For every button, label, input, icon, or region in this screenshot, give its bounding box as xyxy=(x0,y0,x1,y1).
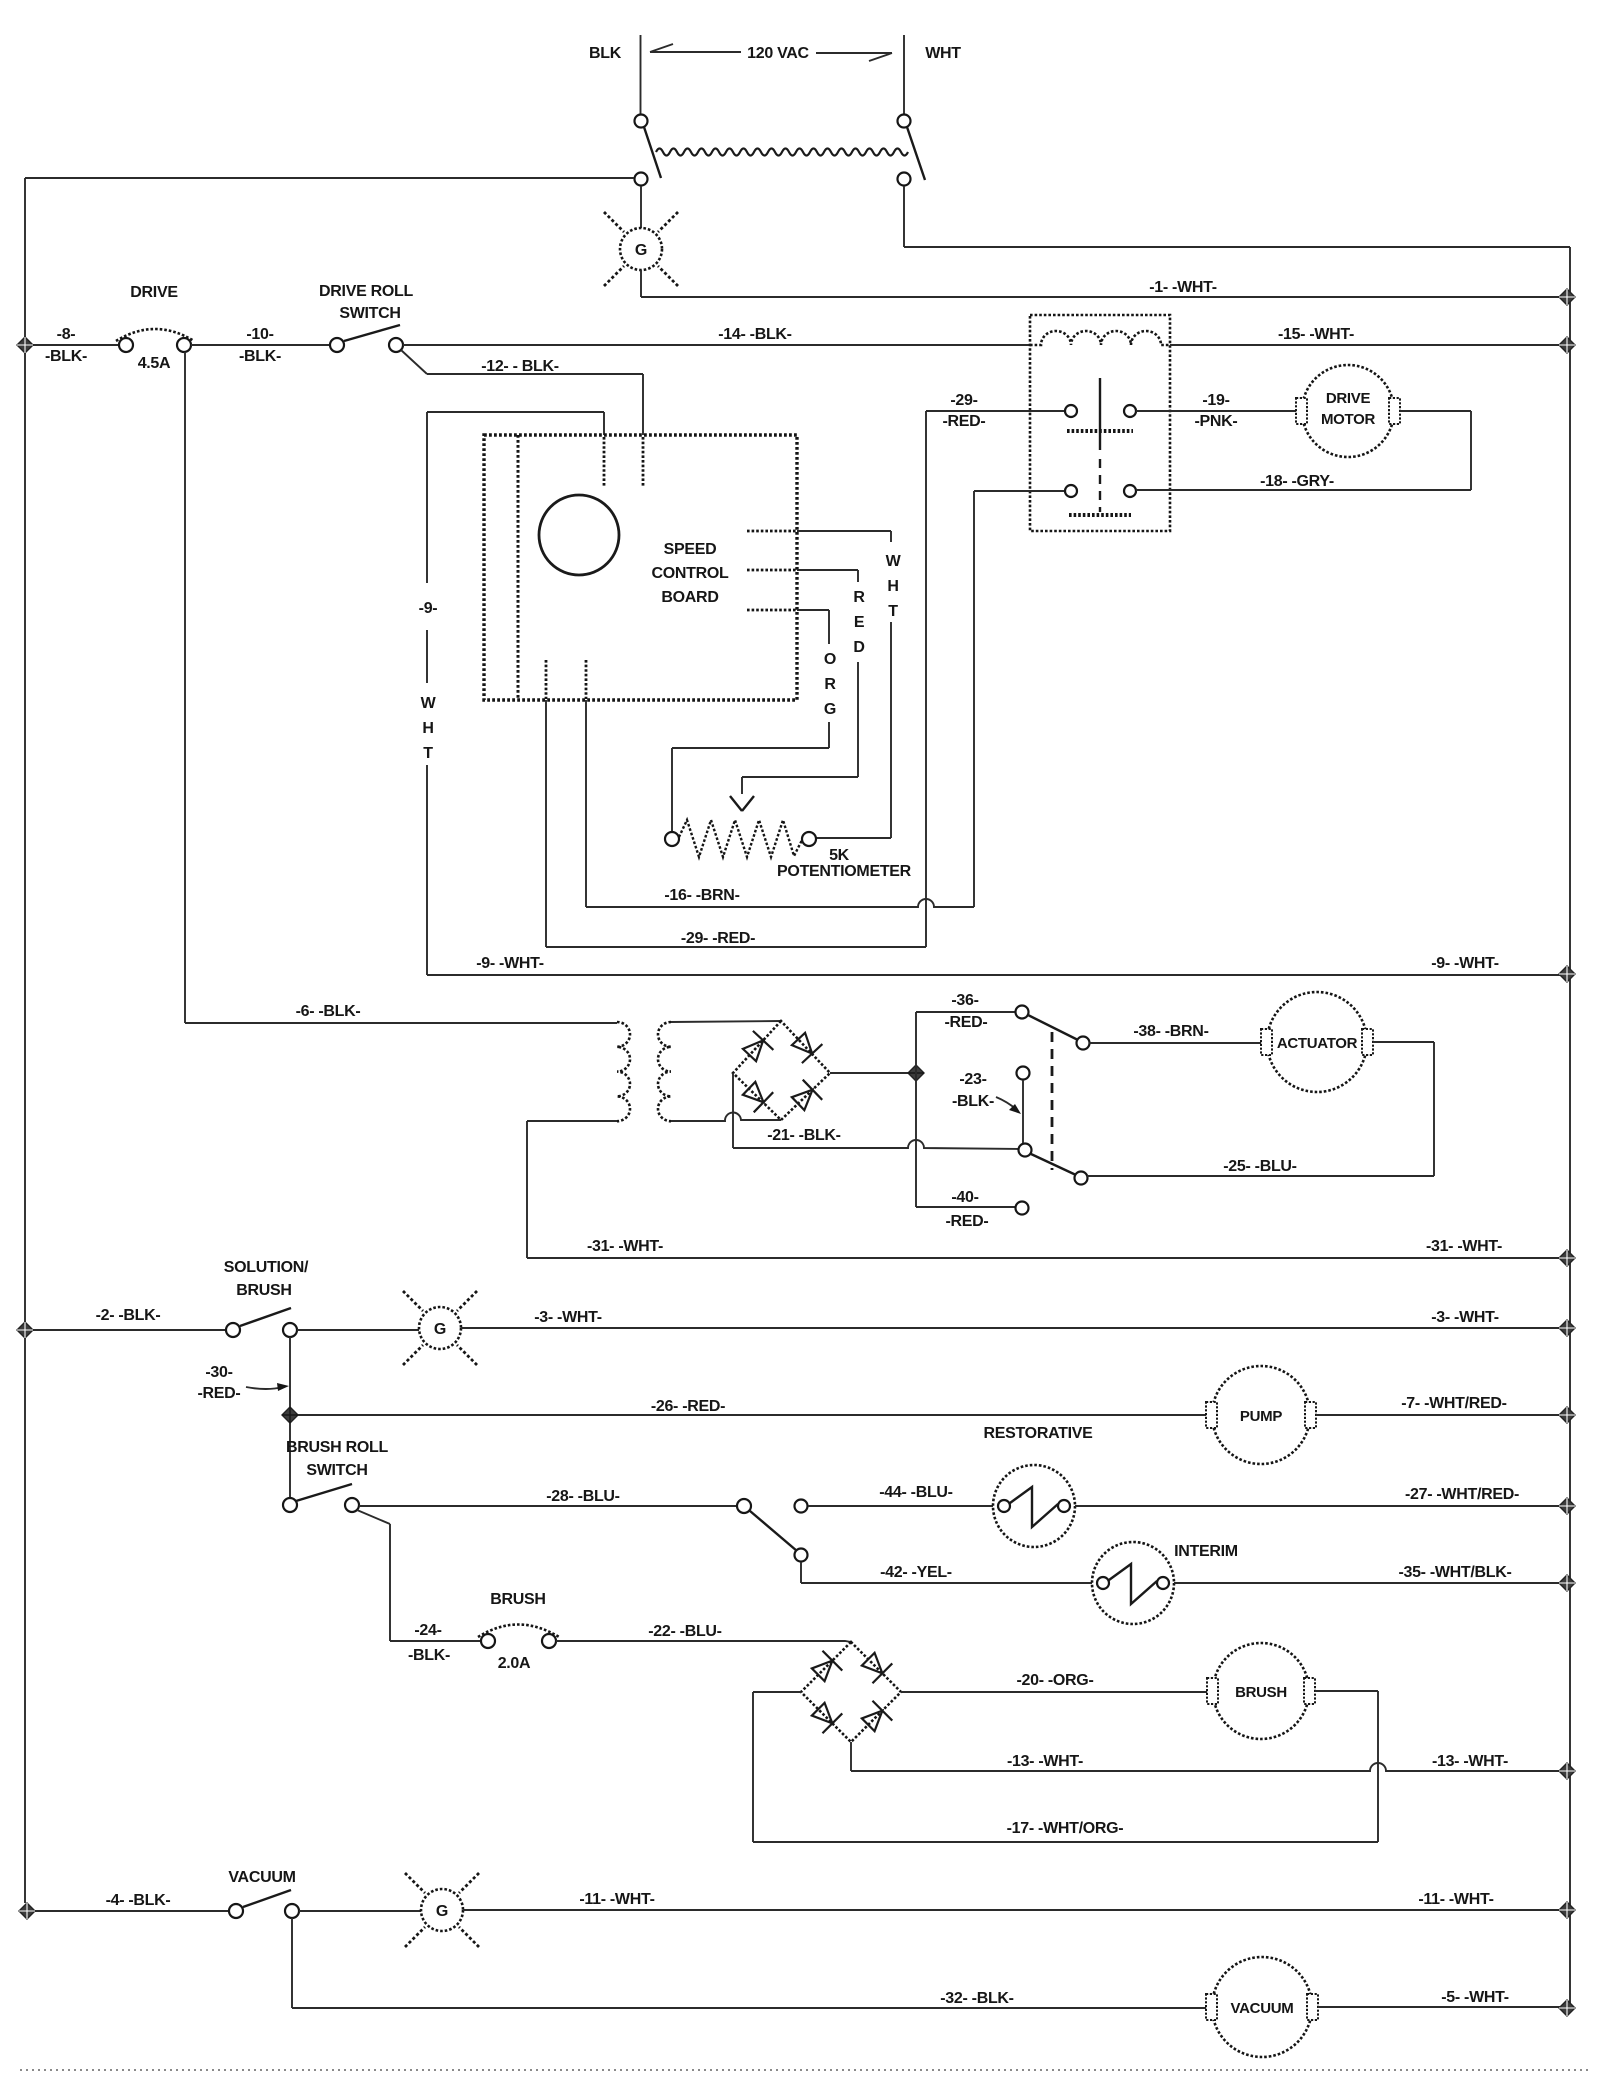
label 2.0A xyxy=(498,1655,531,1672)
wire primary bottom to -31- xyxy=(527,1121,617,1258)
svg-text:-3- -WHT-: -3- -WHT- xyxy=(534,1309,602,1326)
svg-text:DRIVE: DRIVE xyxy=(1326,390,1371,407)
svg-text:W: W xyxy=(421,695,437,712)
junction node -26- xyxy=(282,1407,298,1423)
wire bridge bottom to -13- xyxy=(850,1742,852,1771)
label -29- -RED- (relay) xyxy=(943,392,986,430)
wire -17- -WHT/ORG- xyxy=(753,1841,1378,1843)
svg-text:-BLK-: -BLK- xyxy=(952,1093,994,1110)
wire -1- -WHT- xyxy=(641,270,1561,297)
svg-text:T: T xyxy=(888,603,898,620)
wire -31- -WHT- xyxy=(527,1257,1561,1259)
svg-text:PUMP: PUMP xyxy=(1240,1408,1282,1425)
svg-text:-20- -ORG-: -20- -ORG- xyxy=(1016,1672,1093,1689)
label -28- -BLU- xyxy=(546,1488,619,1505)
svg-text:-31- -WHT-: -31- -WHT- xyxy=(587,1238,663,1255)
svg-text:BRUSH: BRUSH xyxy=(1235,1684,1287,1701)
svg-text:E: E xyxy=(854,614,865,631)
label -4- -BLK- xyxy=(106,1892,171,1909)
svg-text:-RED-: -RED- xyxy=(198,1385,241,1402)
svg-text:-13- -WHT-: -13- -WHT- xyxy=(1432,1753,1508,1770)
label -31- -WHT- left xyxy=(587,1238,663,1255)
connector diamond -8- left xyxy=(17,337,33,353)
svg-text:-25- -BLU-: -25- -BLU- xyxy=(1223,1158,1296,1175)
label -23- -BLK- with leader xyxy=(952,1071,1021,1114)
label SPEED CONTROL BOARD xyxy=(651,541,729,606)
svg-text:D: D xyxy=(853,639,864,656)
svg-text:WHT: WHT xyxy=(925,45,961,62)
drive motor M1 xyxy=(1296,365,1400,457)
wire -5- -WHT- xyxy=(1318,2006,1561,2008)
label -2- -BLK- xyxy=(96,1307,161,1324)
label -11- -WHT- right xyxy=(1418,1891,1493,1908)
svg-text:BLK: BLK xyxy=(589,45,622,62)
svg-text:RESTORATIVE: RESTORATIVE xyxy=(983,1425,1093,1442)
svg-text:-44- -BLU-: -44- -BLU- xyxy=(879,1484,952,1501)
svg-text:-BLK-: -BLK- xyxy=(408,1647,450,1664)
label -14- -BLK- xyxy=(718,326,791,343)
wire -7- -WHT/RED- xyxy=(1316,1414,1561,1416)
wire bridge right to junction xyxy=(830,1072,916,1074)
wire -19- -PNK- xyxy=(1136,410,1296,412)
label -25- -BLU- xyxy=(1223,1158,1296,1175)
label -19- -PNK- xyxy=(1195,392,1238,430)
svg-text:-RED-: -RED- xyxy=(946,1213,989,1230)
wire -35- -WHT/BLK- xyxy=(1174,1582,1561,1584)
connector diamond -4- left xyxy=(19,1903,35,1919)
connector diamond -5- right xyxy=(1559,2000,1575,2016)
dimension arrow left xyxy=(650,44,741,52)
connector diamond -35- right xyxy=(1559,1575,1575,1591)
wire brush motor to -17- riser xyxy=(1315,1691,1378,1842)
wire -16- relay to board with hop xyxy=(586,491,1064,907)
svg-text:O: O xyxy=(824,651,836,668)
restorative valve L1 xyxy=(993,1465,1075,1547)
circuit breaker CB1 4.5A xyxy=(116,329,194,352)
svg-text:VACUUM: VACUUM xyxy=(228,1869,295,1886)
connector diamond -2- left xyxy=(17,1322,33,1338)
svg-text:-12- - BLK-: -12- - BLK- xyxy=(481,358,559,375)
relay K1 coil xyxy=(1030,331,1170,345)
svg-text:-30-: -30- xyxy=(205,1364,232,1381)
wire -24- -BLK- xyxy=(390,1640,481,1642)
label WHT xyxy=(925,45,961,62)
relay K1 box xyxy=(1030,315,1170,531)
speed control board circle xyxy=(539,495,619,575)
svg-text:-8-: -8- xyxy=(57,326,76,343)
wire junction riser -36-/-40- xyxy=(916,1012,1015,1207)
lamp G2 spokes xyxy=(403,1291,477,1365)
svg-text:DRIVE ROLL: DRIVE ROLL xyxy=(319,283,413,300)
svg-text:INTERIM: INTERIM xyxy=(1174,1543,1238,1560)
svg-text:-16- -BRN-: -16- -BRN- xyxy=(664,887,739,904)
svg-text:SWITCH: SWITCH xyxy=(339,305,400,322)
svg-text:-2- -BLK-: -2- -BLK- xyxy=(96,1307,161,1324)
svg-text:-35- -WHT/BLK-: -35- -WHT/BLK- xyxy=(1398,1564,1511,1581)
wire SW7 to lamp G3 xyxy=(299,1910,421,1912)
label -6- -BLK- xyxy=(296,1003,361,1020)
wire -9- -WHT- horizontal xyxy=(427,974,1561,976)
junction node (bridge +) xyxy=(908,1065,924,1081)
wire -30- node drop xyxy=(289,1337,291,1498)
wire -23- jumper xyxy=(1022,1080,1024,1143)
wire WHT pole down to right frame xyxy=(904,186,1570,247)
label -30- -RED- with leader xyxy=(198,1364,289,1402)
lamp G1 spokes xyxy=(604,212,678,286)
svg-text:H: H xyxy=(422,720,433,737)
wire WHT line cord xyxy=(903,35,905,114)
svg-text:BRUSH: BRUSH xyxy=(490,1591,545,1608)
svg-text:-23-: -23- xyxy=(959,1071,986,1088)
label -42- -YEL- xyxy=(880,1564,952,1581)
label -15- -WHT- xyxy=(1278,326,1354,343)
wire -9- vertical xyxy=(426,412,428,975)
label WHT vertical xyxy=(886,553,902,620)
svg-text:G: G xyxy=(635,242,647,259)
lamp G3 spokes xyxy=(405,1873,479,1947)
svg-text:-BLK-: -BLK- xyxy=(239,348,281,365)
svg-text:-BLK-: -BLK- xyxy=(45,348,87,365)
vacuum switch SW7 xyxy=(229,1890,299,1918)
svg-text:2.0A: 2.0A xyxy=(498,1655,531,1672)
wire -29- relay to board xyxy=(546,411,1064,947)
svg-text:-28- -BLU-: -28- -BLU- xyxy=(546,1488,619,1505)
indicator lamp G1 xyxy=(620,228,662,270)
brush motor M4 xyxy=(1207,1643,1315,1739)
plug switch SW1 levers xyxy=(644,127,925,180)
svg-text:5K: 5K xyxy=(829,847,850,864)
wire secondary top to bridge xyxy=(671,1021,781,1022)
wire secondary bottom to bridge (hop) xyxy=(671,1112,781,1121)
wire -44- -BLU- xyxy=(808,1505,993,1507)
plug switch SW1 contacts xyxy=(635,115,911,186)
svg-text:-17- -WHT/ORG-: -17- -WHT/ORG- xyxy=(1007,1820,1124,1837)
wire -13- -WHT- with hop xyxy=(851,1763,1561,1771)
actuator switch SW5 contacts xyxy=(1016,1006,1090,1215)
label -3- -WHT- left xyxy=(534,1309,602,1326)
label -20- -ORG- xyxy=(1016,1672,1093,1689)
svg-text:-6- -BLK-: -6- -BLK- xyxy=(296,1003,361,1020)
wire board RED to pot wiper xyxy=(742,570,858,794)
connector diamond -1- right xyxy=(1559,289,1575,305)
wire BLK line cord xyxy=(640,35,642,114)
label -16- -BRN- xyxy=(664,887,739,904)
svg-text:BRUSH: BRUSH xyxy=(236,1282,291,1299)
pump motor M3 xyxy=(1206,1366,1316,1464)
svg-text:-PNK-: -PNK- xyxy=(1195,413,1238,430)
label -29- -RED- (lower) xyxy=(681,930,755,947)
wire left frame bus xyxy=(24,178,26,1903)
board pin stubs top xyxy=(604,437,643,487)
label -7- -WHT/RED- xyxy=(1401,1395,1506,1412)
bridge rectifier BR1 diamond xyxy=(733,1021,830,1120)
wire -12- - BLK- xyxy=(401,350,643,435)
label -40- -RED- xyxy=(946,1189,989,1230)
svg-text:-5- -WHT-: -5- -WHT- xyxy=(1441,1989,1509,2006)
transformer T1 secondary winding xyxy=(658,1022,671,1121)
dimension arrow right xyxy=(816,53,892,61)
connector diamond -7- right xyxy=(1559,1407,1575,1423)
label BLK xyxy=(589,45,622,62)
actuator motor M2 xyxy=(1261,992,1373,1092)
connector diamond -11- right xyxy=(1559,1902,1575,1918)
connector diamond -3- right xyxy=(1559,1320,1575,1336)
svg-text:-36-: -36- xyxy=(951,992,978,1009)
svg-text:-29-: -29- xyxy=(950,392,977,409)
label -13- -WHT- right xyxy=(1432,1753,1508,1770)
svg-text:SOLUTION/: SOLUTION/ xyxy=(224,1259,309,1276)
label -13- -WHT- left xyxy=(1007,1753,1083,1770)
svg-text:-14- -BLK-: -14- -BLK- xyxy=(718,326,791,343)
svg-text:-RED-: -RED- xyxy=(945,1014,988,1031)
label -21- -BLK- xyxy=(767,1127,840,1144)
wire -18- -GRY- xyxy=(1136,411,1471,490)
label -9- WHT vertical xyxy=(419,600,438,762)
interim valve L2 xyxy=(1092,1542,1174,1624)
svg-text:W: W xyxy=(886,553,902,570)
label -22- -BLU- xyxy=(648,1623,721,1640)
wire SW3 to lamp G2 xyxy=(297,1329,419,1331)
indicator lamp G2 xyxy=(419,1307,461,1349)
wire -9- board pin to vertical xyxy=(427,412,604,435)
connector diamond -31- right xyxy=(1559,1250,1575,1266)
svg-text:VACUUM: VACUUM xyxy=(1231,2000,1294,2017)
wire -27- -WHT/RED- xyxy=(1075,1505,1561,1507)
svg-text:ACTUATOR: ACTUATOR xyxy=(1277,1035,1358,1052)
svg-text:G: G xyxy=(824,701,836,718)
svg-text:R: R xyxy=(824,676,836,693)
label -18- -GRY- xyxy=(1260,473,1334,490)
label SOLUTION/ BRUSH xyxy=(224,1259,309,1299)
svg-text:-29- -RED-: -29- -RED- xyxy=(681,930,755,947)
vacuum motor M5 xyxy=(1206,1957,1318,2057)
connector diamond -9- right xyxy=(1559,966,1575,982)
svg-text:T: T xyxy=(423,745,433,762)
wire -15- -WHT- xyxy=(1170,344,1561,346)
brush roll switch SW4 xyxy=(283,1484,359,1512)
relay K1 contact pins xyxy=(1065,405,1136,497)
circuit breaker CB2 2.0A xyxy=(478,1625,559,1649)
svg-text:-24-: -24- xyxy=(414,1622,441,1639)
svg-text:BRUSH ROLL: BRUSH ROLL xyxy=(286,1439,388,1456)
svg-text:-9- -WHT-: -9- -WHT- xyxy=(1431,955,1499,972)
label BRUSH ROLL SWITCH xyxy=(286,1439,388,1479)
label -12- - BLK- xyxy=(481,358,559,375)
svg-text:-13- -WHT-: -13- -WHT- xyxy=(1007,1753,1083,1770)
label -17- -WHT/ORG- xyxy=(1007,1820,1124,1837)
label -9- -WHT- left xyxy=(476,955,544,972)
svg-text:-40-: -40- xyxy=(951,1189,978,1206)
plug switch mechanical link (wavy) xyxy=(656,149,908,156)
label DRIVE ROLL SWITCH xyxy=(319,283,413,322)
label -36- -RED- xyxy=(945,992,988,1031)
label BRUSH (breaker) xyxy=(490,1591,545,1608)
svg-text:120 VAC: 120 VAC xyxy=(747,45,809,62)
label -32- -BLK- xyxy=(940,1990,1013,2007)
label -38- -BRN- xyxy=(1133,1023,1208,1040)
svg-text:R: R xyxy=(853,589,865,606)
wire -10- -BLK- xyxy=(191,344,330,346)
wire -8- -BLK- xyxy=(33,344,119,346)
mode select switch SW6 xyxy=(737,1499,808,1562)
connector diamond -27- right xyxy=(1559,1498,1575,1514)
wire right frame bus xyxy=(1569,247,1571,2008)
svg-text:G: G xyxy=(434,1321,446,1338)
label -10- -BLK- xyxy=(239,326,281,365)
label -35- -WHT/BLK- xyxy=(1398,1564,1511,1581)
label -24- -BLK- xyxy=(408,1622,450,1664)
potentiometer R1 5K xyxy=(665,820,816,857)
svg-text:-32- -BLK-: -32- -BLK- xyxy=(940,1990,1013,2007)
speed control board inner partition xyxy=(517,435,520,700)
label RED vertical xyxy=(853,589,865,656)
label VACUUM (switch) xyxy=(228,1869,295,1886)
wire -14- -BLK- xyxy=(403,344,1030,346)
svg-text:-RED-: -RED- xyxy=(943,413,986,430)
page bottom dotted rule xyxy=(20,2069,1592,2071)
wire -21- -BLK- with hop xyxy=(733,1140,1019,1149)
wire -11- -WHT- xyxy=(463,1909,1561,1911)
pot wiper arrow xyxy=(730,796,754,811)
wire -3- -WHT- xyxy=(461,1327,1561,1329)
svg-text:-11- -WHT-: -11- -WHT- xyxy=(1418,1891,1493,1908)
svg-text:-11- -WHT-: -11- -WHT- xyxy=(579,1891,654,1908)
wire -32- -BLK- xyxy=(292,1918,1206,2008)
svg-text:-42- -YEL-: -42- -YEL- xyxy=(880,1564,952,1581)
svg-text:H: H xyxy=(887,578,898,595)
svg-text:-27- -WHT/RED-: -27- -WHT/RED- xyxy=(1405,1486,1519,1503)
svg-text:POTENTIOMETER: POTENTIOMETER xyxy=(777,863,912,880)
label -3- -WHT- right xyxy=(1431,1309,1499,1326)
actuator switch mechanical link xyxy=(1051,1032,1054,1170)
svg-text:-31- -WHT-: -31- -WHT- xyxy=(1426,1238,1502,1255)
wire -42- -YEL- xyxy=(801,1562,1092,1583)
svg-text:-22- -BLU-: -22- -BLU- xyxy=(648,1623,721,1640)
svg-text:CONTROL: CONTROL xyxy=(651,565,729,582)
wire bridge left to -21- xyxy=(732,1073,734,1148)
svg-text:-3- -WHT-: -3- -WHT- xyxy=(1431,1309,1499,1326)
label -44- -BLU- xyxy=(879,1484,952,1501)
wire SW4 to breaker CB2 xyxy=(357,1510,390,1641)
svg-text:-7- -WHT/RED-: -7- -WHT/RED- xyxy=(1401,1395,1506,1412)
svg-text:G: G xyxy=(436,1903,448,1920)
relay K1 lower contact bar xyxy=(1069,459,1131,515)
label -5- -WHT- xyxy=(1441,1989,1509,2006)
svg-text:DRIVE: DRIVE xyxy=(130,284,178,301)
svg-text:4.5A: 4.5A xyxy=(138,355,171,372)
wire board ORG to pot left xyxy=(672,610,829,832)
label 5K POTENTIOMETER xyxy=(777,847,912,880)
bridge BR1 diodes xyxy=(739,1029,822,1113)
wire -20- -ORG- xyxy=(901,1691,1207,1693)
label DRIVE xyxy=(130,284,178,301)
bridge rectifier BR2 diamond xyxy=(801,1642,901,1742)
svg-text:-38- -BRN-: -38- -BRN- xyxy=(1133,1023,1208,1040)
label -27- -WHT/RED- xyxy=(1405,1486,1519,1503)
svg-text:SPEED: SPEED xyxy=(664,541,717,558)
wire plug to lamp G1 xyxy=(640,186,642,228)
svg-text:MOTOR: MOTOR xyxy=(1321,411,1376,428)
svg-text:-15- -WHT-: -15- -WHT- xyxy=(1278,326,1354,343)
wire -26- -RED- xyxy=(298,1414,1206,1416)
label -9- -WHT- right xyxy=(1431,955,1499,972)
svg-text:-21- -BLK-: -21- -BLK- xyxy=(767,1127,840,1144)
svg-text:-18- -GRY-: -18- -GRY- xyxy=(1260,473,1334,490)
label RESTORATIVE xyxy=(983,1425,1093,1442)
svg-text:-9- -WHT-: -9- -WHT- xyxy=(476,955,544,972)
transformer T1 primary winding xyxy=(617,1022,630,1121)
label ORG vertical xyxy=(824,651,836,718)
board pin stubs right xyxy=(747,531,796,610)
solution/brush switch SW3 xyxy=(226,1308,297,1337)
svg-text:SWITCH: SWITCH xyxy=(306,1462,367,1479)
label 120 VAC xyxy=(747,45,809,62)
connector diamond -15- right xyxy=(1559,337,1575,353)
bridge BR2 diodes xyxy=(808,1649,892,1734)
wire -2- -BLK- xyxy=(33,1329,226,1331)
svg-text:-4- -BLK-: -4- -BLK- xyxy=(106,1892,171,1909)
wire -4- -BLK- xyxy=(35,1910,229,1912)
label -1- -WHT- xyxy=(1149,279,1217,296)
label -26- -RED- xyxy=(651,1398,725,1415)
svg-text:-10-: -10- xyxy=(246,326,273,343)
drive roll switch SW2 xyxy=(330,325,403,352)
label 4.5A xyxy=(138,355,171,372)
svg-text:-19-: -19- xyxy=(1202,392,1229,409)
relay K1 upper contact bar xyxy=(1067,378,1133,450)
indicator lamp G3 xyxy=(421,1889,463,1931)
speed control board U1 box xyxy=(484,435,797,700)
label INTERIM xyxy=(1174,1543,1238,1560)
svg-text:-9-: -9- xyxy=(419,600,438,617)
wire -6- -BLK- xyxy=(185,1022,617,1024)
wire -22- -BLU- xyxy=(556,1641,851,1642)
wire -6- feeder down from CB1 xyxy=(184,352,186,1023)
wire -28- -BLU- xyxy=(359,1505,737,1507)
svg-text:-26- -RED-: -26- -RED- xyxy=(651,1398,725,1415)
wire bridge left to -17- xyxy=(753,1692,801,1842)
label -11- -WHT- left xyxy=(579,1891,654,1908)
wire -25- -BLU- xyxy=(1087,1042,1434,1176)
wire top-left to frame xyxy=(25,177,634,179)
label -8- -BLK- xyxy=(45,326,87,365)
board pin stubs bottom xyxy=(546,660,586,699)
svg-text:-1- -WHT-: -1- -WHT- xyxy=(1149,279,1217,296)
svg-text:BOARD: BOARD xyxy=(661,589,718,606)
actuator switch SW5 levers xyxy=(1028,1015,1078,1175)
wire board WHT to potentiometer xyxy=(797,531,891,838)
wire -38- -BRN- xyxy=(1089,1042,1261,1044)
label -31- -WHT- right xyxy=(1426,1238,1502,1255)
connector diamond -13- right xyxy=(1559,1763,1575,1779)
